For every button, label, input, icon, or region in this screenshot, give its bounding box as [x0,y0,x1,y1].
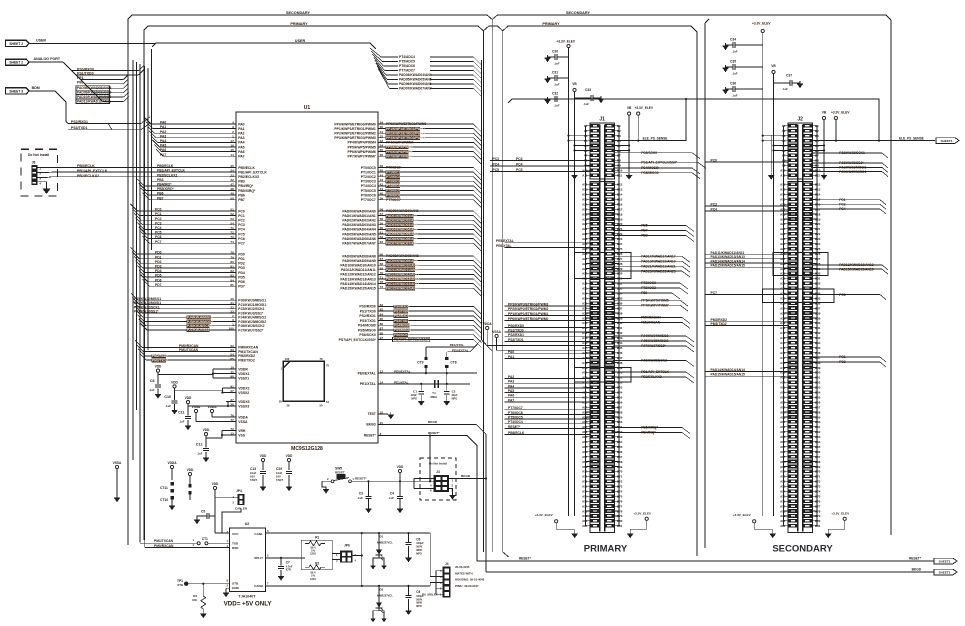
svg-text:PC4: PC4 [155,226,162,230]
svg-text:VCC: VCC [232,532,239,536]
svg-text:PD0: PD0 [155,251,162,255]
svg-text:PE0/EXTAL: PE0/EXTAL [394,370,411,374]
svg-text:PS6/SCK0: PS6/SCK0 [394,333,410,337]
svg-text:PC0: PC0 [155,208,162,212]
svg-text:PS1/TXD0: PS1/TXD0 [508,328,524,332]
svg-text:VDDX2: VDDX2 [238,386,249,390]
svg-text:A33: A33 [582,287,588,291]
svg-text:PJ3/KWJ3/SS1*: PJ3/KWJ3/SS1* [839,161,864,165]
svg-text:14: 14 [380,381,384,385]
svg-text:MATES WITH: MATES WITH [455,571,473,575]
svg-text:BKGD: BKGD [461,474,471,478]
svg-text:RESET*: RESET* [364,434,377,438]
svg-text:VSSA: VSSA [238,420,248,424]
svg-text:PA3: PA3 [508,380,514,384]
svg-text:PJ6/KWJ6/SCK2: PJ6/KWJ6/SCK2 [641,359,667,363]
svg-text:SHEET3: SHEET3 [941,139,953,143]
svg-text:VDDA: VDDA [167,461,177,465]
svg-text:10K: 10K [192,598,197,602]
svg-text:B13: B13 [617,188,623,192]
svg-text:SHEET 3: SHEET 3 [9,89,23,93]
svg-text:C7: C7 [286,561,290,565]
svg-text:CT10: CT10 [160,498,168,502]
svg-text:PD2: PD2 [155,260,162,264]
svg-text:NPO: NPO [452,396,458,400]
svg-text:PD7: PD7 [238,285,245,289]
svg-text:PAD15/KWAD15/AN15: PAD15/KWAD15/AN15 [340,287,375,291]
svg-text:C5: C5 [201,510,205,514]
svg-text:VDDR: VDDR [238,367,248,371]
svg-text:PT7/IOC7: PT7/IOC7 [386,198,401,202]
svg-text:PD5: PD5 [155,274,162,278]
svg-text:PD1: PD1 [155,255,162,259]
svg-text:PM1/TXCAN: PM1/TXCAN [154,539,174,543]
svg-text:PAD07/KWAD07/AN7: PAD07/KWAD07/AN7 [399,87,432,91]
svg-text:PC7: PC7 [711,291,718,295]
svg-text:PB2/ECLKX2: PB2/ECLKX2 [157,173,178,177]
svg-text:J1: J1 [599,117,605,123]
svg-text:A53: A53 [780,386,786,390]
svg-text:TANT: TANT [276,478,283,482]
svg-text:PAD07/KWAD07/AN7: PAD07/KWAD07/AN7 [342,242,376,246]
svg-text:73: 73 [230,427,234,431]
svg-text:PP5/KWP5/PWM5: PP5/KWP5/PWM5 [386,145,413,149]
svg-text:PT5/ADC5: PT5/ADC5 [399,60,415,64]
svg-text:STB: STB [232,582,239,586]
svg-text:PAD02/KWAD02/AN2: PAD02/KWAD02/AN2 [386,218,418,222]
svg-text:PB4/IRQ*: PB4/IRQ* [157,183,172,187]
svg-text:VB: VB [822,110,827,114]
svg-text:PC1: PC1 [839,355,846,359]
svg-text:PE0/EXTAL: PE0/EXTAL [358,371,376,375]
svg-text:27: 27 [230,389,234,393]
svg-text:PAD09/KWAD09/AN9: PAD09/KWAD09/AN9 [342,259,376,263]
svg-text:CT8: CT8 [450,361,456,365]
svg-text:PE1/XTAL: PE1/XTAL [394,380,409,384]
svg-text:SECONDARY: SECONDARY [286,11,311,15]
svg-text:16V: 16V [250,475,255,479]
svg-text:PT0/IOC0: PT0/IOC0 [386,166,401,170]
svg-text:PT6/ADC6: PT6/ADC6 [399,64,415,68]
svg-text:PA2: PA2 [238,132,244,136]
svg-text:PB1/API_EXTCLK: PB1/API_EXTCLK [641,370,669,374]
svg-text:PS5/MISO0: PS5/MISO0 [394,328,411,332]
svg-text:B53: B53 [815,386,821,390]
svg-text:PC4: PC4 [493,162,500,166]
svg-text:C29: C29 [276,467,282,471]
svg-text:10: 10 [230,366,234,370]
svg-text:PE6/XTAL: PE6/XTAL [496,244,512,248]
svg-text:PC0: PC0 [711,158,718,162]
svg-text:PA6: PA6 [508,394,514,398]
svg-text:USER: USER [36,39,46,43]
svg-text:C9: C9 [416,590,420,594]
svg-text:PC5: PC5 [493,168,500,172]
svg-text:26-30-3045: 26-30-3045 [455,565,470,569]
svg-text:PS3/TXD1: PS3/TXD1 [508,338,524,342]
svg-text:VSSA: VSSA [113,461,122,465]
svg-text:.1uF: .1uF [782,87,788,91]
svg-text:+3.3V_ELEV: +3.3V_ELEV [831,110,850,114]
svg-text:CANH: CANH [254,584,264,588]
svg-text:PC1: PC1 [155,212,162,216]
svg-text:PD5: PD5 [238,275,245,279]
svg-text:PC7: PC7 [155,240,162,244]
svg-text:TXD: TXD [232,541,239,545]
svg-text:R3: R3 [193,594,197,598]
svg-text:PA6: PA6 [160,148,166,152]
svg-text:U2: U2 [245,522,250,526]
svg-text:76: 76 [319,357,323,361]
svg-text:.1uF: .1uF [554,104,560,108]
svg-text:PB2/ECLKX2: PB2/ECLKX2 [77,174,99,178]
svg-text:25: 25 [279,400,283,404]
svg-text:PJ7/KWJ7/SS2*: PJ7/KWJ7/SS2* [238,328,264,332]
svg-text:C8: C8 [150,379,155,383]
svg-text:A10: A10 [780,169,786,173]
svg-text:B10: B10 [815,169,821,173]
svg-text:PP2/KWP2/ETRIG2/PWM2: PP2/KWP2/ETRIG2/PWM2 [386,131,425,135]
svg-text:PB5/XIRQ*: PB5/XIRQ* [641,426,658,430]
svg-text:A13: A13 [582,188,588,192]
svg-text:PC3: PC3 [155,221,162,225]
svg-text:1210: 1210 [310,577,316,581]
svg-text:JP6: JP6 [344,544,350,548]
svg-text:PJ7/KWJ7/SS2*: PJ7/KWJ7/SS2* [187,328,211,332]
svg-text:RESET*: RESET* [508,425,521,429]
svg-text:PA1: PA1 [508,355,514,359]
svg-text:PA0: PA0 [508,350,514,354]
svg-text:4.7nF: 4.7nF [286,564,293,568]
svg-text:PT4/IOC4: PT4/IOC4 [508,420,523,424]
svg-text:B53: B53 [617,386,623,390]
svg-text:PS3/TXD1: PS3/TXD1 [360,319,376,323]
svg-text:VSSX1: VSSX1 [238,376,249,380]
svg-text:MC9S12G128: MC9S12G128 [291,446,323,452]
svg-text:PC0: PC0 [238,209,245,213]
svg-text:PP1/KWP1/ETRIG1/PWM1: PP1/KWP1/ETRIG1/PWM1 [386,127,425,131]
svg-text:NPO: NPO [411,396,417,400]
svg-text:PAD14/KWAD14/AN14: PAD14/KWAD14/AN14 [711,368,746,372]
svg-text:PP7/KWP7/PWM7: PP7/KWP7/PWM7 [348,155,376,159]
svg-text:PB6: PB6 [238,193,245,197]
svg-text:PAD12/KWAD12/AN12: PAD12/KWAD12/AN12 [386,273,419,277]
svg-text:A73: A73 [780,485,786,489]
svg-text:16V: 16V [276,475,281,479]
svg-text:PP5/KWP5/PWM5: PP5/KWP5/PWM5 [641,298,669,302]
svg-text:.1uF: .1uF [554,62,560,66]
svg-text:BDM: BDM [32,86,40,90]
svg-text:PC6: PC6 [839,293,846,297]
svg-text:PJ4/KWJ4/MISO2: PJ4/KWJ4/MISO2 [641,334,668,338]
svg-text:PD6: PD6 [238,280,245,284]
svg-text:VRH: VRH [238,429,246,433]
svg-text:PA2: PA2 [508,375,514,379]
svg-text:C13: C13 [250,467,256,471]
svg-text:PB3: PB3 [238,180,245,184]
svg-text:PC5: PC5 [238,232,245,236]
svg-text:VDD: VDD [203,428,210,432]
svg-text:26: 26 [286,403,290,407]
svg-text:PP3/KWP3/ETRIG3/PWM3: PP3/KWP3/ETRIG3/PWM3 [386,136,425,140]
svg-text:PAD17/KWAD17/AN17: PAD17/KWAD17/AN17 [641,255,676,259]
svg-text:PJ0/KWJ0/MISO1: PJ0/KWJ0/MISO1 [839,170,866,174]
svg-text:A13: A13 [780,188,786,192]
svg-text:+3.3V_ELEV: +3.3V_ELEV [831,512,850,516]
svg-text:PT2/IOC2: PT2/IOC2 [386,175,400,179]
svg-text:.1uF: .1uF [732,94,738,98]
svg-text:PD6: PD6 [155,278,162,282]
svg-text:PB3: PB3 [157,178,164,182]
svg-text:C31: C31 [552,71,558,75]
svg-text:SHEET 2: SHEET 2 [9,42,23,46]
svg-text:PA6: PA6 [238,150,244,154]
svg-text:500V: 500V [416,597,422,601]
svg-text:CT9: CT9 [417,361,423,365]
svg-text:PAD08/KWAD08/AN8: PAD08/KWAD08/AN8 [386,254,419,258]
svg-text:PP7/KWP7/PWM7: PP7/KWP7/PWM7 [641,303,669,307]
svg-text:VB: VB [627,106,632,110]
svg-text:PT0/IOC0: PT0/IOC0 [361,166,376,170]
svg-text:+3.3V_ELEV: +3.3V_ELEV [633,512,652,516]
svg-text:RESET*: RESET* [519,556,532,560]
svg-text:CANL: CANL [254,532,263,536]
svg-text:PS6/SCK0: PS6/SCK0 [359,333,376,337]
svg-text:PT6/IOC6: PT6/IOC6 [386,193,400,197]
svg-text:PRIMARY: PRIMARY [290,22,308,26]
svg-text:PAD13/KWAD13/AN13: PAD13/KWAD13/AN13 [386,277,419,281]
svg-text:U1: U1 [304,105,311,111]
svg-text:PC1: PC1 [839,198,846,202]
svg-text:PS2/RXD1: PS2/RXD1 [359,314,376,318]
svg-text:PE5/EXTAL: PE5/EXTAL [496,239,514,243]
svg-text:RESET*: RESET* [909,556,922,560]
svg-text:PC2: PC2 [238,219,245,223]
svg-text:PA5: PA5 [508,389,514,393]
svg-text:C10: C10 [164,395,171,399]
svg-text:A73: A73 [582,485,588,489]
svg-text:VDDA: VDDA [207,405,217,409]
svg-text:PT5/IOC5: PT5/IOC5 [361,189,376,193]
svg-text:VSS: VSS [238,433,246,437]
svg-text:PT6/IOC6: PT6/IOC6 [508,411,523,415]
svg-text:PC4: PC4 [238,228,245,232]
svg-text:PAD04/KWAD04/AN4: PAD04/KWAD04/AN4 [342,228,376,232]
svg-text:C37: C37 [786,74,792,78]
svg-text:PS1/TXD0: PS1/TXD0 [394,309,409,313]
svg-text:PB5/XIRQ*: PB5/XIRQ* [238,189,256,193]
svg-text:.1uF: .1uF [149,388,155,392]
svg-text:50: 50 [319,403,323,407]
svg-text:VSSA: VSSA [192,405,201,409]
svg-text:PAD07/KWAD07/AN7: PAD07/KWAD07/AN7 [386,241,418,245]
svg-text:PS4/MOSI0: PS4/MOSI0 [394,324,411,328]
svg-text:PAD12/KWAD12/AN12: PAD12/KWAD12/AN12 [340,273,375,277]
svg-text:BKGD: BKGD [912,567,922,571]
svg-text:90: 90 [230,375,234,379]
svg-text:CT1: CT1 [202,537,208,541]
svg-text:PAD04/KWAD04/AN4: PAD04/KWAD04/AN4 [386,228,418,232]
svg-text:PD7: PD7 [155,283,162,287]
svg-text:PT5/IOC5: PT5/IOC5 [508,416,523,420]
svg-text:PA5: PA5 [238,145,244,149]
svg-text:PC5: PC5 [155,231,162,235]
svg-text:C35: C35 [730,60,736,64]
svg-text:VDDA: VDDA [483,322,493,326]
svg-text:11: 11 [231,370,235,374]
svg-text:24: 24 [380,421,384,425]
svg-text:PA2: PA2 [160,130,166,134]
svg-text:VDD: VDD [397,465,404,469]
svg-text:J2: J2 [797,117,803,123]
svg-text:PB4/IRQ*: PB4/IRQ* [238,184,254,188]
svg-text:PAD06/KWAD06/AN6: PAD06/KWAD06/AN6 [386,237,418,241]
svg-text:TEST: TEST [368,412,376,416]
svg-text:R1: R1 [315,535,319,539]
svg-text:SHEET3: SHEET3 [939,559,951,563]
svg-text:Do Not Install: Do Not Install [429,462,447,466]
svg-text:NPO: NPO [416,604,422,608]
svg-text:J3: J3 [436,470,440,474]
svg-text:Do Not Install: Do Not Install [28,153,49,157]
svg-text:38: 38 [230,403,234,407]
svg-text:91: 91 [230,385,234,389]
svg-text:PB0/ECLK: PB0/ECLK [157,164,174,168]
svg-text:PINS:: 39-00-0317: PINS:: 39-00-0317 [455,584,479,588]
svg-text:PC3: PC3 [493,157,500,161]
svg-text:PA3: PA3 [160,134,166,138]
svg-text:PT4/IOC4: PT4/IOC4 [386,184,400,188]
svg-text:D2: D2 [380,587,384,591]
svg-text:PAD23/KWAD23/AN23: PAD23/KWAD23/AN23 [641,269,676,273]
svg-text:.1uF: .1uF [197,452,203,456]
svg-text:VDD: VDD [171,380,178,384]
svg-text:PB1/API_EXTCLK: PB1/API_EXTCLK [157,169,185,173]
svg-text:PT3/IOC3: PT3/IOC3 [641,281,656,285]
svg-text:75: 75 [326,364,330,368]
svg-text:PS6/SCK0: PS6/SCK0 [641,151,657,155]
svg-text:PD4: PD4 [238,271,245,275]
svg-text:MMBZ27VCL: MMBZ27VCL [377,541,393,545]
svg-text:VDD: VDD [155,365,162,369]
svg-text:RXD: RXD [232,546,239,550]
svg-text:RESET: RESET [335,470,345,474]
svg-text:PA0: PA0 [238,122,244,126]
svg-text:PC2: PC2 [155,217,162,221]
svg-text:PB7: PB7 [157,196,164,200]
svg-text:PB0/ECLK: PB0/ECLK [77,164,95,168]
svg-text:BKGD: BKGD [366,423,376,427]
svg-text:PC1: PC1 [238,214,245,218]
svg-text:PT6/IOC6: PT6/IOC6 [361,193,376,197]
svg-text:ELE_PS_SENSE: ELE_PS_SENSE [643,136,668,140]
svg-text:22pF: 22pF [452,393,458,397]
svg-text:PD3: PD3 [155,265,162,269]
svg-text:A10: A10 [582,169,588,173]
svg-text:500V: 500V [416,545,422,549]
svg-text:PC4: PC4 [839,207,846,211]
svg-text:ANALOG PORT: ANALOG PORT [34,57,61,61]
svg-text:B10: B10 [617,169,623,173]
svg-text:PP0/KWP0/ETRIG0/PWM0: PP0/KWP0/ETRIG0/PWM0 [386,122,426,126]
svg-text:.1uF: .1uF [179,420,185,424]
svg-text:PS1/TXD0: PS1/TXD0 [360,309,376,313]
svg-text:PT7/ADC7: PT7/ADC7 [399,69,415,73]
svg-text:10uF: 10uF [250,471,257,475]
svg-text:PAD10/KWAD10/AN10: PAD10/KWAD10/AN10 [386,263,419,267]
svg-text:PT2/IOC2: PT2/IOC2 [641,286,656,290]
svg-text:SHEET3: SHEET3 [939,570,951,574]
svg-text:VB: VB [771,64,776,68]
svg-text:USER: USER [295,39,306,43]
svg-text:PT1/IOC1: PT1/IOC1 [361,170,376,174]
svg-text:PAD19/KWAD19/AN19: PAD19/KWAD19/AN19 [641,259,676,263]
svg-text:51: 51 [326,400,330,404]
svg-text:D1: D1 [380,535,384,539]
svg-text:VSSX2: VSSX2 [238,391,249,395]
svg-text:PAD10/KWAD10/AN10: PAD10/KWAD10/AN10 [340,264,375,268]
svg-text:PA7: PA7 [160,153,166,157]
svg-text:RA_MOLEX: RA_MOLEX [422,593,438,597]
svg-text:PT3/IOC3: PT3/IOC3 [386,180,400,184]
svg-text:PAD13/KWAD13/AN13: PAD13/KWAD13/AN13 [340,277,375,281]
svg-text:100: 100 [285,357,290,361]
svg-text:1210: 1210 [310,552,316,556]
svg-text:VDDA: VDDA [238,415,248,419]
svg-text:PB7: PB7 [238,198,245,202]
svg-text:B73: B73 [617,485,623,489]
svg-text:PAD01/KWAD01/AN1: PAD01/KWAD01/AN1 [386,214,418,218]
svg-text:.1uF: .1uF [388,496,394,500]
svg-text:TJA1040T: TJA1040T [239,595,257,599]
svg-text:PP1/KWP1/ETRIG1/PWM1: PP1/KWP1/ETRIG1/PWM1 [508,312,548,316]
svg-text:PE1/XTAL: PE1/XTAL [450,343,465,347]
svg-text:PS0/RXD0: PS0/RXD0 [508,324,524,328]
svg-text:PA4: PA4 [508,384,514,388]
svg-text:PAD15/KWAD15/AN15: PAD15/KWAD15/AN15 [711,373,746,377]
svg-text:PM0/RXCAN: PM0/RXCAN [641,316,661,320]
svg-text:PB0/ECLK: PB0/ECLK [238,166,255,170]
svg-text:.1uF: .1uF [732,72,738,76]
svg-text:PS7/API_EXTCLK/SS0*: PS7/API_EXTCLK/SS0* [394,338,430,342]
svg-text:C34: C34 [730,38,736,42]
svg-text:PAD21/KWAD21/AN21: PAD21/KWAD21/AN21 [641,264,676,268]
svg-text:SECONDARY: SECONDARY [772,544,833,555]
svg-text:PD4: PD4 [155,269,162,273]
svg-text:76: 76 [230,414,234,418]
svg-text:PA4: PA4 [238,141,244,145]
svg-text:PS5/MISO0: PS5/MISO0 [641,171,659,175]
svg-text:0805: 0805 [416,548,422,552]
svg-text:PJ2/KWJ2/SCK1: PJ2/KWJ2/SCK1 [839,151,865,155]
svg-text:ELE_PS_SENSE: ELE_PS_SENSE [899,136,924,140]
svg-text:B33: B33 [617,287,623,291]
svg-text:77: 77 [230,418,234,422]
svg-text:PB2/ECLKX2: PB2/ECLKX2 [641,375,662,379]
svg-text:C11: C11 [178,411,184,415]
svg-text:PA4: PA4 [160,139,166,143]
svg-text:PT3/IOC3: PT3/IOC3 [361,180,376,184]
svg-text:+3.3V_ELEV: +3.3V_ELEV [557,39,576,43]
svg-text:100pF: 100pF [416,541,424,545]
svg-text:PP6/KWP6/PWM6: PP6/KWP6/PWM6 [348,150,376,154]
svg-text:PD2: PD2 [238,262,245,266]
svg-text:PP3/KWP3/ETRIG3/PWM3: PP3/KWP3/ETRIG3/PWM3 [334,136,376,140]
svg-text:PP4/KWP4/PWM4: PP4/KWP4/PWM4 [386,141,414,145]
svg-text:PJ7/KWJ7/SS2*: PJ7/KWJ7/SS2* [641,344,666,348]
svg-text:PAD02/KWAD02/AN2: PAD02/KWAD02/AN2 [342,219,376,223]
svg-text:PP2/KWP2/ETRIG2/PWM2: PP2/KWP2/ETRIG2/PWM2 [334,132,376,136]
